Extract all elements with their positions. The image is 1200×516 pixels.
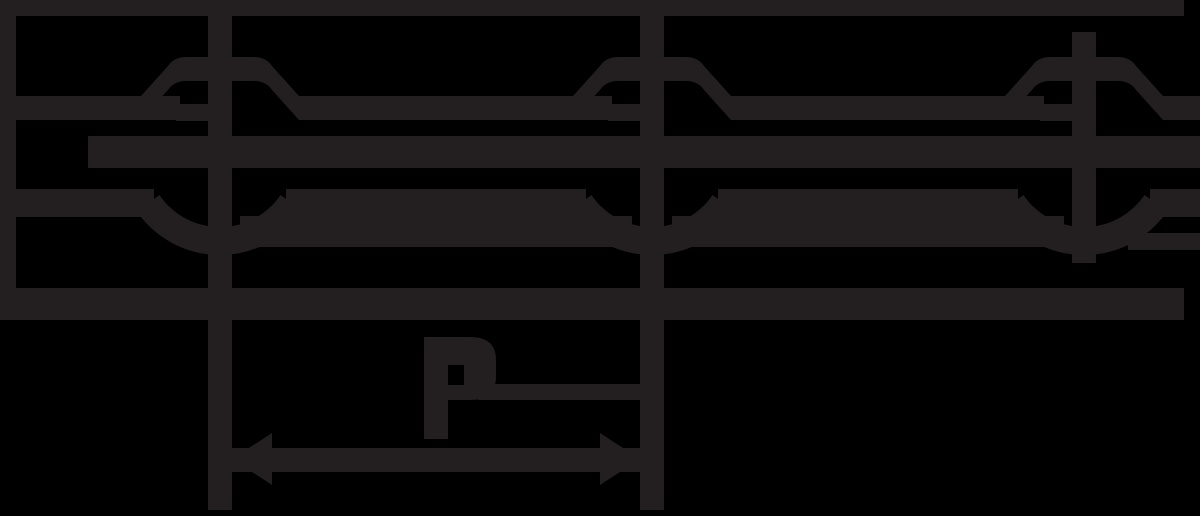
rib 3 valley dip xyxy=(1012,203,1156,241)
rib 1 centerline xyxy=(208,8,232,510)
rib 2 valley dip xyxy=(580,203,724,241)
rib 3 centerline xyxy=(1072,32,1096,263)
left dimension arrowhead xyxy=(232,433,272,485)
dimension line shaft for pitch P xyxy=(232,448,640,472)
upper profile baseline segment right xyxy=(1163,96,1200,120)
lower profile flat segment left xyxy=(16,189,154,217)
rib 1 crest bump xyxy=(141,57,299,120)
upper profile baseline segment left xyxy=(16,96,180,120)
lower sheet underside segment right edge xyxy=(1128,233,1200,250)
rib 1 valley dip xyxy=(148,203,292,241)
lower sheet underside segment between rib1 and rib2 xyxy=(240,216,632,247)
letter P label xyxy=(424,337,496,439)
rib 3 crest bump xyxy=(1005,57,1163,120)
rib 2 centerline xyxy=(640,8,664,510)
top reference line (crest level) xyxy=(0,0,1184,16)
leader line from P to rib 2 centerline xyxy=(478,384,652,400)
lower profile flat segment between rib2 and rib3 xyxy=(718,189,1018,217)
lower sheet underside segment between rib2 and rib3 xyxy=(672,216,1064,247)
lower profile flat segment between rib1 and rib2 xyxy=(286,189,586,217)
thick middle line (overlap interface) xyxy=(88,136,1200,168)
baseline stub under rib1 crest xyxy=(176,104,212,121)
upper profile baseline segment between rib2 and rib3 xyxy=(731,96,1044,120)
rib 2 crest bump xyxy=(573,57,731,120)
baseline stub under rib3 crest xyxy=(1040,104,1076,121)
left edge vertical line xyxy=(0,0,16,320)
lower profile flat segment right xyxy=(1150,189,1200,217)
bottom reference line (valley level) xyxy=(0,288,1184,320)
right dimension arrowhead xyxy=(600,433,640,485)
upper profile baseline segment between rib1 and rib2 xyxy=(299,96,612,120)
baseline stub under rib2 crest xyxy=(608,104,644,121)
